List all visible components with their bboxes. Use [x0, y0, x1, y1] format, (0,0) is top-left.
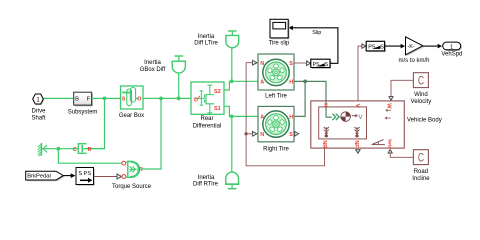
- svg-text:Diff LTire: Diff LTire: [194, 40, 218, 46]
- vehicle body block: [311, 101, 442, 149]
- converter PS_S speed: [366, 41, 386, 52]
- svg-text:H: H: [289, 115, 293, 121]
- gain m/s to km/h: [398, 37, 429, 64]
- port VehSpd (1): [441, 42, 462, 57]
- svg-text:S: S: [122, 97, 126, 103]
- BrkPedal from tag: [26, 171, 65, 181]
- wire S PS to torque source S: [94, 176, 118, 178]
- wire down to damper R: [82, 98, 104, 148]
- node ground branch junction: [57, 147, 61, 151]
- svg-text:V: V: [354, 104, 360, 108]
- wire subsystem to gear box: [92, 97, 121, 99]
- svg-text:Wind: Wind: [414, 92, 428, 98]
- svg-text:W: W: [386, 103, 392, 109]
- svg-text:BrkPedal: BrkPedal: [27, 174, 51, 180]
- svg-text:GBox Diff: GBox Diff: [140, 67, 166, 73]
- svg-text:Gear Box: Gear Box: [119, 113, 144, 119]
- svg-text:A: A: [260, 115, 264, 121]
- svg-text:N: N: [260, 132, 264, 138]
- svg-text:Left Tire: Left Tire: [265, 93, 287, 99]
- wire branch to torque source C: [58, 149, 122, 164]
- constant Wind Velocity: [411, 73, 432, 105]
- CG circle icon: [341, 112, 351, 122]
- svg-text:C: C: [418, 74, 424, 88]
- wire H net (dark green) tires H to vehicle body H: [294, 81, 333, 119]
- svg-text:H: H: [322, 103, 328, 107]
- svg-text:NR: NR: [321, 140, 327, 148]
- svg-text:O: O: [137, 97, 142, 103]
- wire normal-force net (maroon) VB NR to tires N: [246, 63, 324, 166]
- svg-text:-K-: -K-: [408, 44, 415, 50]
- arrow V icon: [352, 115, 356, 117]
- torque source: [112, 161, 152, 190]
- wire left tire S to slip converter: [294, 62, 307, 64]
- svg-text:Velocity: Velocity: [411, 99, 432, 105]
- svg-text:D: D: [194, 97, 198, 103]
- port S circle: [122, 175, 126, 179]
- svg-text:Right Tire: Right Tire: [263, 146, 289, 152]
- port C circle: [122, 161, 126, 165]
- damper (rotational) C-R: [73, 144, 105, 154]
- svg-text:Road: Road: [414, 169, 428, 175]
- wire gear box to rear differential: [143, 97, 191, 99]
- converter PS_S slip: [311, 59, 331, 69]
- svg-text:beta: beta: [387, 139, 392, 149]
- wire ground to damper C: [42, 148, 78, 150]
- svg-text:S: S: [325, 62, 329, 68]
- scope Tire slip: [269, 19, 290, 46]
- node junction S2 inertia: [230, 79, 234, 83]
- right tire block: [258, 106, 294, 152]
- svg-text:F: F: [87, 97, 91, 103]
- right tire S unconnected port arrow: [295, 132, 299, 137]
- wire slip converter to scope: [293, 28, 338, 64]
- port Drive Shaft (1): [31, 94, 46, 121]
- rear differential block: [191, 82, 224, 130]
- wheel icon left: [324, 127, 329, 134]
- svg-text:Inertia: Inertia: [198, 34, 215, 40]
- left tire block: [258, 54, 294, 99]
- svg-text:R: R: [139, 167, 143, 173]
- svg-text:Rear: Rear: [200, 116, 213, 122]
- svg-text:1: 1: [450, 44, 453, 50]
- wire rear diff S1 to right tire A: [224, 106, 258, 116]
- svg-text:PS: PS: [313, 62, 320, 68]
- wire vehicle body V to speed converter: [358, 46, 362, 101]
- svg-text:B: B: [75, 97, 79, 103]
- svg-text:H: H: [289, 80, 293, 86]
- node H junction: [303, 80, 307, 84]
- right tire N input arrow: [253, 132, 257, 137]
- wire H inside: [325, 101, 327, 117]
- wire wind velocity to W: [391, 80, 413, 96]
- svg-text:S2: S2: [214, 89, 221, 95]
- svg-text:Incline: Incline: [412, 176, 430, 182]
- W wind arrows icon: [386, 110, 391, 118]
- svg-text:Slip: Slip: [312, 30, 321, 36]
- gear box block: [119, 86, 144, 119]
- svg-text:A: A: [260, 80, 264, 86]
- wheel icon right: [354, 127, 359, 134]
- svg-text:VehSpd: VehSpd: [441, 51, 462, 57]
- svg-text:R: R: [88, 147, 92, 153]
- svg-text:Vehicle Body: Vehicle Body: [407, 117, 442, 123]
- svg-text:S: S: [289, 61, 293, 67]
- svg-text:Inertia: Inertia: [144, 60, 161, 66]
- subsystem block: [68, 92, 98, 116]
- svg-text:Shaft: Shaft: [31, 115, 45, 121]
- svg-text:C: C: [418, 151, 424, 165]
- converter S PS (Simulink to PS): [76, 168, 95, 186]
- port NF unconnected arrow: [356, 150, 360, 154]
- inertia Diff LTire: [194, 31, 238, 81]
- node junction on main shaft: [103, 97, 107, 101]
- node N junction: [244, 132, 247, 135]
- wire drive shaft to subsystem: [43, 97, 74, 99]
- beta angle icon: [372, 140, 385, 145]
- inertia GBox Diff: [140, 56, 186, 98]
- wire rear diff S2 to left tire A: [224, 81, 258, 90]
- svg-text:Inertia: Inertia: [198, 175, 215, 181]
- svg-text:m/s to km/h: m/s to km/h: [398, 58, 429, 64]
- node junction torque branch: [159, 97, 163, 101]
- node junction inertia branch: [177, 97, 181, 101]
- svg-text:C: C: [73, 147, 77, 153]
- svg-text:Tire slip: Tire slip: [269, 41, 290, 47]
- wire gain to VehSpd: [423, 45, 438, 47]
- svg-text:S: S: [289, 132, 293, 138]
- svg-text:Differential: Differential: [193, 124, 222, 130]
- svg-text:S: S: [380, 45, 384, 51]
- svg-text:Diff RTire: Diff RTire: [193, 181, 219, 187]
- wire converter to gain: [385, 45, 401, 47]
- node junction S1 inertia: [230, 115, 234, 119]
- svg-text:PS: PS: [368, 45, 376, 51]
- svg-text:N: N: [260, 61, 264, 67]
- ground mechanical reference: [38, 143, 47, 156]
- svg-text:S PS: S PS: [78, 171, 91, 177]
- svg-text:Subsystem: Subsystem: [68, 110, 98, 116]
- wire BrkPedal to S PS: [63, 175, 71, 177]
- left tire N input arrow: [253, 60, 257, 65]
- inertia Diff RTire: [193, 116, 239, 188]
- svg-text:Torque Source: Torque Source: [112, 184, 152, 190]
- constant Road Incline: [412, 150, 430, 182]
- svg-text:S1: S1: [214, 106, 221, 112]
- wire road incline to beta: [390, 153, 413, 158]
- svg-text:Drive: Drive: [31, 109, 46, 115]
- svg-text:NF: NF: [353, 140, 359, 148]
- wire torque source R up to main shaft: [140, 98, 162, 169]
